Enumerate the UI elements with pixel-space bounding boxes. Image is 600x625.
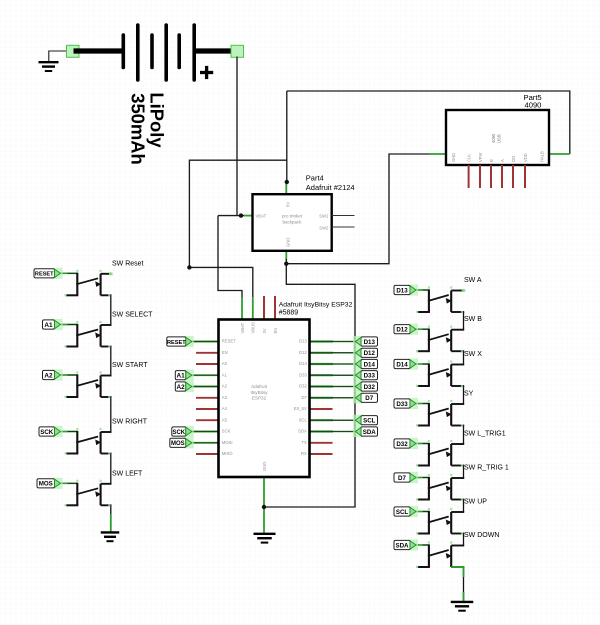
svg-text:EN: EN: [222, 350, 228, 355]
svg-text:D32: D32: [396, 441, 408, 448]
svg-text:SW A: SW A: [464, 277, 482, 284]
svg-text:Part4: Part4: [306, 174, 324, 183]
svg-text:SW B: SW B: [464, 316, 482, 323]
svg-text:VPW: VPW: [478, 153, 483, 162]
svg-text:D32: D32: [299, 384, 307, 389]
svg-text:SY: SY: [464, 391, 474, 398]
svg-text:D13: D13: [396, 287, 408, 294]
svg-text:A1: A1: [222, 372, 228, 377]
svg-text:B: B: [489, 159, 494, 162]
svg-text:350mAh: 350mAh: [128, 93, 149, 165]
svg-text:SDA: SDA: [298, 429, 307, 434]
svg-text:ESP32: ESP32: [252, 396, 267, 401]
svg-text:D7: D7: [365, 395, 373, 402]
svg-text:SW2: SW2: [319, 226, 329, 231]
svg-text:MOSI: MOSI: [222, 440, 233, 445]
svg-text:VBUS: VBUS: [251, 322, 256, 334]
svg-text:MOS: MOS: [39, 481, 53, 488]
svg-text:A2: A2: [222, 384, 228, 389]
svg-text:4090: 4090: [491, 133, 496, 143]
svg-text:#5889: #5889: [279, 309, 299, 316]
svg-text:SCL: SCL: [396, 509, 409, 516]
svg-text:A4: A4: [222, 406, 228, 411]
svg-text:RESET: RESET: [35, 272, 54, 278]
svg-text:SW DOWN: SW DOWN: [464, 532, 499, 539]
svg-text:SDA: SDA: [395, 542, 409, 549]
svg-text:D14: D14: [299, 361, 307, 366]
svg-text:A: A: [500, 159, 505, 162]
svg-text:Adafruit ItsyBitsy ESP32: Adafruit ItsyBitsy ESP32: [279, 302, 353, 309]
svg-text:SW R_TRIG 1: SW R_TRIG 1: [464, 465, 509, 472]
svg-text:D13: D13: [299, 339, 307, 344]
svg-text:A2: A2: [176, 384, 185, 391]
svg-text:SCL: SCL: [363, 418, 376, 425]
svg-text:SW START: SW START: [112, 362, 148, 369]
svg-text:SW SELECT: SW SELECT: [112, 312, 153, 319]
svg-text:SW LEFT: SW LEFT: [112, 470, 143, 477]
svg-text:3V: 3V: [262, 328, 267, 333]
svg-text:Adafruit: Adafruit: [251, 384, 268, 389]
svg-text:MOS: MOS: [171, 441, 185, 447]
svg-text:SDA: SDA: [363, 429, 377, 436]
svg-text:D12: D12: [364, 350, 376, 357]
svg-text:D12: D12: [396, 327, 408, 334]
svg-text:SCL: SCL: [299, 417, 308, 422]
svg-text:D7: D7: [398, 475, 406, 482]
svg-text:VBAT: VBAT: [256, 214, 267, 219]
svg-text:D32: D32: [364, 384, 376, 391]
svg-text:VBAT: VBAT: [240, 322, 245, 333]
svg-text:A2: A2: [44, 372, 53, 379]
svg-text:USB: USB: [497, 134, 502, 143]
svg-text:pro trinket: pro trinket: [282, 214, 303, 219]
svg-text:EX_5V: EX_5V: [294, 406, 307, 411]
svg-text:MISO: MISO: [222, 451, 233, 456]
svg-text:SW RIGHT: SW RIGHT: [112, 419, 148, 426]
svg-text:TX: TX: [301, 440, 307, 445]
svg-text:A1: A1: [44, 322, 53, 329]
svg-text:ItsyBitsy: ItsyBitsy: [250, 390, 268, 395]
svg-text:D14: D14: [364, 361, 376, 368]
svg-text:D33: D33: [396, 401, 408, 408]
svg-text:A3: A3: [222, 395, 228, 400]
svg-text:SW Reset: SW Reset: [112, 260, 144, 267]
svg-text:A1: A1: [176, 373, 185, 380]
svg-text:LiPoly: LiPoly: [147, 92, 168, 148]
svg-text:EN: EN: [273, 328, 278, 334]
svg-text:GND: GND: [262, 462, 267, 471]
svg-text:CLK: CLK: [467, 154, 472, 162]
svg-text:SCK: SCK: [172, 430, 185, 436]
svg-text:DO: DO: [511, 156, 516, 162]
svg-text:VDD: VDD: [523, 153, 528, 162]
svg-text:RESET: RESET: [167, 340, 186, 346]
svg-text:D33: D33: [299, 372, 307, 377]
svg-text:D7: D7: [301, 395, 307, 400]
svg-text:HALB: HALB: [540, 151, 545, 162]
svg-text:GND: GND: [285, 238, 290, 247]
svg-text:RX: RX: [301, 451, 307, 456]
svg-text:4090: 4090: [525, 101, 542, 110]
svg-text:SCK: SCK: [222, 429, 231, 434]
svg-text:SW UP: SW UP: [464, 499, 487, 506]
svg-text:D13: D13: [364, 339, 376, 346]
svg-text:backpack: backpack: [282, 220, 302, 225]
svg-text:SW X: SW X: [464, 351, 482, 358]
svg-text:SW L_TRIG1: SW L_TRIG1: [464, 431, 506, 438]
svg-text:D33: D33: [364, 373, 376, 380]
svg-text:D12: D12: [299, 350, 307, 355]
svg-text:Adafruit #2124: Adafruit #2124: [306, 183, 355, 192]
svg-text:D14: D14: [396, 361, 408, 368]
svg-text:5V: 5V: [285, 202, 290, 207]
svg-text:A5: A5: [222, 417, 228, 422]
svg-text:RESET: RESET: [222, 339, 236, 344]
svg-text:A0: A0: [222, 361, 228, 366]
svg-text:GND: GND: [451, 153, 456, 162]
svg-text:SW1: SW1: [319, 214, 329, 219]
svg-text:SCK: SCK: [40, 429, 54, 436]
